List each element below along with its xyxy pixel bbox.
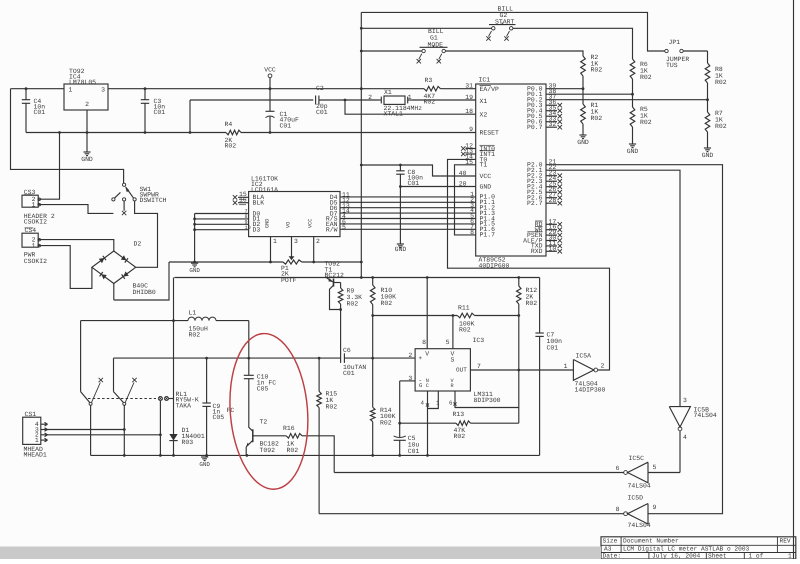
resistor R4	[225, 121, 242, 150]
pin label P0.1	[527, 91, 543, 98]
wire CS1 pin2 to relay coil	[48, 433, 162, 436]
pin label D3	[245, 225, 261, 234]
pin label D1	[245, 214, 261, 223]
IC2 LCD161A body	[249, 176, 340, 237]
wire R12/OUT column	[518, 316, 520, 424]
bridge diode top-left	[99, 256, 106, 263]
wire X1 to IC1 pin19	[412, 99, 476, 101]
pin label R/W	[326, 224, 346, 234]
title block	[601, 537, 796, 560]
capacitor C10	[244, 358, 276, 428]
pin label P0.7	[527, 124, 543, 131]
pin label WR	[535, 226, 543, 233]
IC3 pin V/R label	[451, 378, 455, 389]
resistor R3	[424, 77, 441, 106]
pin label P0.2	[527, 97, 543, 104]
pushbutton G1 MODE	[417, 28, 448, 63]
pin label TXD	[531, 243, 543, 250]
pin label P0.6	[527, 119, 543, 126]
wire P0.1 to R6/R5 junction	[546, 93, 633, 95]
inverter IC5B 74LS04	[669, 397, 717, 472]
capacitor C8	[396, 164, 423, 244]
pin number 27 P2.6	[546, 192, 562, 200]
pin number 24 P2.3	[546, 175, 562, 183]
wire X2 to IC1 pin18	[344, 99, 476, 115]
wire T0 from IC5A output	[448, 159, 610, 370]
IC U1 AT89C52 body	[476, 77, 546, 270]
pin label P1.1	[480, 199, 496, 206]
wire SW1 pole C to bridge AC right	[135, 201, 158, 267]
pin number 35 P0.4	[546, 105, 562, 113]
pin label P2.4	[527, 184, 543, 191]
wire P0.0 to R2/R1 junction	[546, 88, 583, 90]
wire GND pin 20	[400, 186, 475, 188]
pin label P2.5	[527, 189, 543, 196]
wire crystal line to ground rail	[189, 100, 314, 134]
pin number 7	[470, 223, 474, 230]
pin number 6	[470, 218, 474, 225]
pin number 16 stub	[546, 224, 562, 232]
resistor R16	[283, 425, 334, 473]
pin label R/S	[326, 213, 346, 223]
IC3 LM311 body	[415, 337, 501, 404]
switch SW1 DSWITCH	[112, 183, 167, 215]
wire G2 to R6	[513, 28, 633, 59]
wire IC5D output to R15	[319, 513, 624, 515]
capacitor C5	[394, 423, 420, 457]
wire oscillator VCC rail	[174, 276, 539, 279]
wire tank rail	[114, 357, 375, 360]
pin number 25 P2.4	[546, 181, 562, 189]
wire CS3 pin1 to switch pole A	[41, 205, 114, 214]
wire VCC bus vertical	[360, 12, 363, 279]
inverter IC5D 74LS04	[616, 495, 657, 529]
pin number 1	[470, 191, 474, 198]
relay RL1 coil	[88, 391, 199, 455]
ground rail / reset rail	[26, 132, 476, 134]
wire net to button G2	[361, 27, 491, 29]
pin label INT0	[480, 145, 496, 152]
pin number 33 P0.6	[546, 116, 562, 124]
pin number 17 stub	[546, 218, 562, 226]
pin number 14	[465, 154, 473, 161]
pin label RD	[535, 221, 543, 228]
wire G1 to R2	[445, 51, 583, 56]
pushbutton G2 START	[486, 6, 515, 41]
wire CS4 pin1 to bridge AC left	[41, 246, 92, 289]
IC3 pin 6 strap to output node	[449, 391, 519, 408]
wire CS1 pin3 to relay contact B	[48, 428, 126, 431]
pin number 21 P2.0	[549, 159, 557, 166]
pin label P1.0	[480, 194, 496, 201]
crystal X1	[368, 89, 422, 118]
wire D0-D3 tie bus	[193, 214, 248, 264]
pin label P0.4	[527, 108, 543, 115]
resistor R15	[317, 358, 337, 514]
pin label P1.5	[480, 221, 496, 228]
pin number 4	[470, 207, 474, 214]
potentiometer P1	[281, 256, 302, 284]
ground under R7	[702, 148, 714, 159]
wire T1 / P1.7	[455, 165, 476, 235]
pin number 36 P0.3	[546, 99, 562, 107]
pin number 3	[470, 202, 474, 209]
wire P2.0 loop to IC5D input	[546, 165, 723, 514]
pin label X2	[480, 111, 488, 118]
wire bridge minus to ground link	[113, 284, 115, 301]
inductor L1	[81, 309, 249, 338]
bridge diode bottom-right	[122, 271, 129, 278]
pin number 19	[465, 94, 473, 101]
wire P2.1 to IC5B input	[546, 170, 680, 406]
IC3 pins 4 and 1 strap	[421, 391, 440, 457]
resistor R1	[581, 89, 603, 135]
ground under IC4	[81, 152, 93, 163]
pin label X1	[480, 98, 488, 105]
pin number 29 stub	[546, 229, 562, 237]
wire net to jumper JP1	[361, 12, 665, 51]
pin label T1	[480, 162, 488, 169]
pin label D7	[330, 208, 350, 218]
pin number 37 P0.2	[549, 94, 557, 101]
pin label GND	[480, 183, 492, 190]
pin label P2.7	[527, 200, 543, 207]
transistor T1 BC212	[325, 261, 344, 310]
resistor R12	[517, 278, 538, 316]
pin number 11 stub	[546, 240, 562, 248]
capacitor C6	[341, 347, 416, 377]
pin number 39 P0.0	[549, 83, 557, 90]
pin 2 VCC of LCD	[308, 219, 321, 264]
pin BLA stub	[233, 191, 264, 201]
pin 13 INT1 stub	[461, 148, 476, 156]
pin label P2.2	[527, 173, 543, 180]
pin number 31	[465, 83, 473, 90]
pin label P1.3	[480, 210, 496, 217]
jumper JP1	[665, 39, 708, 69]
pin label EA/VP	[480, 86, 499, 93]
regulator IC4 LM78L05	[64, 68, 108, 110]
pin number 15	[465, 159, 473, 166]
inverter IC5C 74LS04	[616, 455, 657, 489]
pin label P2.3	[527, 178, 543, 185]
pin label D0	[245, 209, 261, 218]
pin number 10 stub	[546, 245, 562, 253]
bridge diode top-right	[121, 255, 128, 262]
capacitor C9	[202, 358, 234, 455]
connector CS4	[22, 227, 47, 265]
pin label P1.2	[480, 205, 496, 212]
relay contact B	[114, 358, 137, 455]
pin label P2.6	[527, 195, 543, 202]
relay contact A	[81, 321, 103, 456]
resistor R5	[630, 94, 652, 143]
pin number 38 P0.1	[549, 88, 557, 95]
pin number 28 P2.7	[546, 197, 562, 205]
capacitor C2	[316, 85, 379, 116]
bridge diode bottom-left	[100, 272, 107, 279]
pin label P1.7	[480, 232, 496, 239]
pin label D4	[330, 192, 350, 202]
pin label P0.5	[527, 113, 543, 120]
wire raw input drop and feed to SW1	[11, 89, 124, 183]
IC3 pin 2 + input	[408, 352, 422, 362]
pin number 20	[459, 181, 467, 188]
capacitor C3	[141, 87, 165, 134]
pin number 5	[470, 213, 474, 220]
pin number 9	[469, 126, 473, 133]
capacitor C4	[22, 87, 45, 132]
pin number 18	[465, 108, 473, 115]
resistor R9	[338, 283, 362, 311]
pin BLK stub	[233, 197, 264, 207]
resistor R6	[630, 59, 652, 96]
IC3 pin N/C label	[426, 378, 429, 389]
ground marker on main rail	[199, 457, 210, 468]
pin label D5	[330, 197, 350, 207]
pin number 22 P2.1	[549, 164, 557, 171]
wire net to button G1	[360, 27, 422, 52]
pin label EAN	[326, 219, 346, 229]
wire IC4 pin2 to ground	[86, 110, 89, 152]
pin label INT1	[480, 151, 496, 158]
connector CS1	[23, 411, 47, 458]
IC3 pin 5 balance	[446, 314, 455, 363]
resistor R8	[705, 51, 727, 101]
IC3 pin G label	[419, 382, 423, 389]
bridge rectifier D2	[92, 240, 156, 296]
wire rail down to bridge minus	[114, 262, 169, 300]
ground marker on LCD rail	[189, 263, 200, 274]
pin 3 VO of LCD	[285, 222, 298, 260]
pin label D6	[330, 202, 350, 212]
pin label P0.3	[527, 102, 543, 109]
IC3 pin 3 - input	[398, 375, 422, 425]
wire VCC-rail from input to IC4 and onward to IC1 pin 31	[11, 88, 476, 90]
pin number 2	[470, 196, 474, 203]
pin label P1.6	[480, 226, 496, 233]
pin label P0.0	[527, 86, 543, 93]
wire IC5C output to R16	[334, 472, 624, 474]
resistor R7	[705, 100, 727, 148]
wire main ground rail	[91, 454, 540, 457]
ground under C8	[395, 244, 407, 253]
IC3 OUT pin 7	[456, 363, 573, 374]
ground under R1	[577, 135, 589, 146]
pin 1 GND of LCD	[264, 219, 277, 264]
wire IC5B output to IC5C input	[648, 472, 680, 474]
pin label VCC	[480, 173, 492, 180]
wire P0.2 to R8/R7 junction	[546, 99, 708, 101]
pin number 34 P0.5	[546, 110, 562, 118]
resistor R10	[370, 278, 396, 317]
wire CS3 pin2 to ground rail	[41, 131, 61, 199]
sheet frame right border	[793, 0, 795, 559]
pin label PSEN	[527, 232, 543, 239]
wire L1 to tank rail	[172, 319, 249, 358]
IC3 pin 8 V+	[422, 278, 429, 358]
wire CS4 pin2 to bridge AC top	[41, 240, 114, 251]
resistor R14	[370, 316, 395, 457]
pin label P2.1	[527, 167, 543, 174]
scanner gray band at bottom	[0, 547, 601, 560]
pin number 8	[470, 229, 474, 236]
wires LCD data bus to IC1 P1.0-P1.6	[340, 197, 476, 229]
pin number 26 P2.5	[546, 186, 562, 194]
pin label T0	[480, 156, 488, 163]
capacitor C1 470uF	[266, 87, 299, 134]
resistor R2	[581, 54, 603, 90]
pin number 32 P0.7	[546, 121, 562, 129]
diode D1 1N4001	[169, 278, 205, 456]
resistor R11	[373, 305, 520, 334]
resistor R13	[400, 411, 519, 440]
ground under R5	[627, 144, 639, 155]
pin 12 INT0 stub	[461, 143, 476, 151]
pin label P2.0	[527, 162, 543, 169]
pin number 23 P2.2	[546, 170, 562, 178]
pin number 30 stub	[546, 235, 562, 243]
wire T1 collector node to C6	[340, 310, 342, 354]
connector CS1 pin stubs	[41, 422, 48, 442]
transistor T2 BC182	[246, 419, 287, 457]
wire LCD supply rail	[169, 261, 361, 263]
connector CS3	[22, 189, 55, 226]
VCC symbol	[264, 67, 276, 89]
pin label D2	[245, 220, 261, 229]
wire VCC pin 40 feed	[361, 165, 475, 176]
pin label P1.4	[480, 215, 496, 222]
inverter IC5A 74LS04	[564, 353, 606, 394]
capacitor C7	[535, 278, 562, 456]
pin label ALE/P	[523, 237, 542, 244]
pin number 40	[459, 170, 467, 177]
pin label RXD	[531, 248, 543, 255]
pin label RESET	[480, 129, 499, 136]
